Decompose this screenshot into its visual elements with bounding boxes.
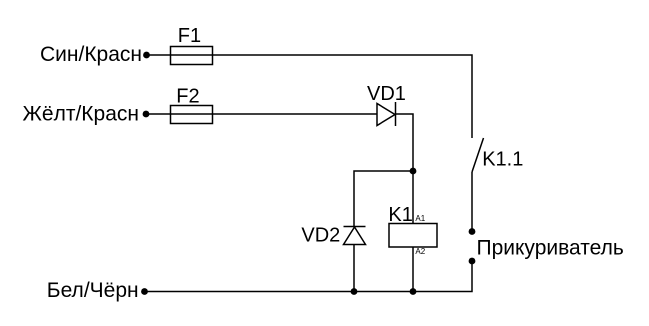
svg-text:F2: F2 xyxy=(176,86,199,108)
svg-text:Жёлт/Красн: Жёлт/Красн xyxy=(23,103,139,126)
svg-text:Прикуриватель: Прикуриватель xyxy=(477,237,624,260)
svg-text:K1: K1 xyxy=(388,204,412,226)
svg-text:A2: A2 xyxy=(415,247,425,256)
svg-text:Син/Красн: Син/Красн xyxy=(40,43,142,66)
svg-text:VD2: VD2 xyxy=(301,225,340,247)
svg-text:K1.1: K1.1 xyxy=(482,148,523,170)
svg-text:Бел/Чёрн: Бел/Чёрн xyxy=(47,279,139,302)
svg-text:F1: F1 xyxy=(178,25,201,47)
svg-text:A1: A1 xyxy=(415,214,425,223)
svg-text:VD1: VD1 xyxy=(367,83,406,105)
